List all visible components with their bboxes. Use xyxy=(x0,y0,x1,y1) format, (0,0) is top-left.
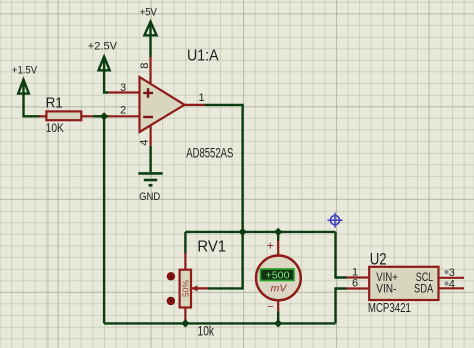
node B junction xyxy=(239,228,247,236)
svg-text:3: 3 xyxy=(120,82,126,94)
potentiometer RV1 top lead xyxy=(184,253,186,270)
svg-text:4: 4 xyxy=(449,279,455,291)
op-amp U1 minus input mark xyxy=(143,116,153,118)
wire pin 4 to ground xyxy=(149,146,151,172)
svg-text:+2.5V: +2.5V xyxy=(88,41,118,53)
op-amp U1 pin 2 lead xyxy=(108,115,140,117)
svg-text:2: 2 xyxy=(120,105,126,117)
node meter-bottom junction xyxy=(274,319,282,327)
wire node A to op-amp pin 2 xyxy=(104,115,108,117)
wire mid rail corner down to U2 pin 1 xyxy=(336,232,347,278)
wire mid rail xyxy=(185,231,335,233)
wire mid rail down to RV1 xyxy=(184,232,186,253)
IC U2 pin 4 lead SDA xyxy=(439,287,465,289)
op-amp U1 pin 1 lead xyxy=(185,104,206,106)
op-amp U1 triangle xyxy=(140,77,185,132)
svg-text:GND: GND xyxy=(139,191,160,203)
op-amp U1 plus input mark xyxy=(143,88,153,98)
power arrow +2.5V xyxy=(99,57,110,71)
svg-text:RV1: RV1 xyxy=(197,239,226,256)
wire +1.5V to R1 xyxy=(24,94,41,117)
wire bottom rail xyxy=(104,322,335,324)
op-amp U1 pin 4 lead xyxy=(150,125,152,146)
wire to voltmeter top xyxy=(277,232,279,241)
node A junction xyxy=(100,112,108,120)
svg-text:SDA: SDA xyxy=(414,281,433,295)
svg-text:+1.5V: +1.5V xyxy=(12,64,38,76)
svg-text:3: 3 xyxy=(449,267,455,279)
svg-text:+500: +500 xyxy=(266,270,290,282)
op-amp U1 pin 3 lead xyxy=(108,91,140,93)
node RV1-bottom junction xyxy=(181,319,189,327)
IC U2 pin 4 terminal square xyxy=(445,282,449,286)
potentiometer RV1 bottom lead xyxy=(184,308,186,324)
wire +2.5V to op-amp pin 3 xyxy=(104,70,108,92)
svg-text:50%: 50% xyxy=(180,280,190,297)
svg-text:U1:A: U1:A xyxy=(187,47,219,64)
svg-text:VIN-: VIN- xyxy=(376,281,396,295)
svg-text:1: 1 xyxy=(199,92,205,104)
wire bottom rail up to U2 pin 6 xyxy=(336,289,347,324)
potentiometer RV1 adjust button down xyxy=(167,297,175,305)
ground symbol xyxy=(138,173,162,185)
svg-text:10K: 10K xyxy=(46,121,64,135)
wire node A down to bottom rail xyxy=(103,116,105,323)
wire voltmeter bottom to rail xyxy=(277,311,279,323)
wire +5V down xyxy=(149,35,151,57)
svg-text:R1: R1 xyxy=(46,94,63,111)
IC U2 pin 1 lead xyxy=(347,276,370,278)
IC U2 pin 3 lead SCL xyxy=(439,277,465,279)
voltmeter bottom lead xyxy=(277,300,279,311)
potentiometer RV1 adjust button up xyxy=(167,273,175,281)
resistor R1 body xyxy=(46,111,81,120)
origin marker crosshair xyxy=(328,213,343,228)
voltmeter LCD display xyxy=(261,269,295,282)
wire R1 to node A xyxy=(93,115,104,117)
resistor R1 lead right xyxy=(81,115,92,117)
svg-text:10k: 10k xyxy=(198,323,215,339)
wire wiper to node B xyxy=(208,232,243,289)
potentiometer RV1 body xyxy=(180,270,191,308)
node meter-top junction xyxy=(274,228,282,236)
power arrow +1.5V xyxy=(18,80,29,94)
svg-text:U2: U2 xyxy=(370,249,387,268)
IC U2 body xyxy=(369,267,438,300)
power arrow +5V xyxy=(144,22,156,36)
svg-text:8: 8 xyxy=(139,63,151,69)
IC U2 pin 3 terminal square xyxy=(445,270,449,274)
IC U2 pin 6 lead xyxy=(347,287,370,289)
resistor R1 lead left xyxy=(39,115,46,117)
svg-text:+5V: +5V xyxy=(140,7,158,19)
svg-text:AD8552AS: AD8552AS xyxy=(186,144,233,160)
svg-text:MCP3421: MCP3421 xyxy=(368,300,411,315)
voltmeter top lead xyxy=(277,241,279,257)
op-amp U1 pin 8 lead xyxy=(149,57,151,84)
svg-text:+: + xyxy=(267,239,274,253)
voltmeter body xyxy=(256,256,301,301)
svg-text:−: − xyxy=(267,301,273,313)
wire op-amp output right and down xyxy=(205,105,243,232)
svg-text:6: 6 xyxy=(352,277,358,289)
svg-text:mV: mV xyxy=(271,283,288,294)
potentiometer RV1 wiper arrow xyxy=(191,285,208,291)
svg-text:4: 4 xyxy=(139,139,151,145)
